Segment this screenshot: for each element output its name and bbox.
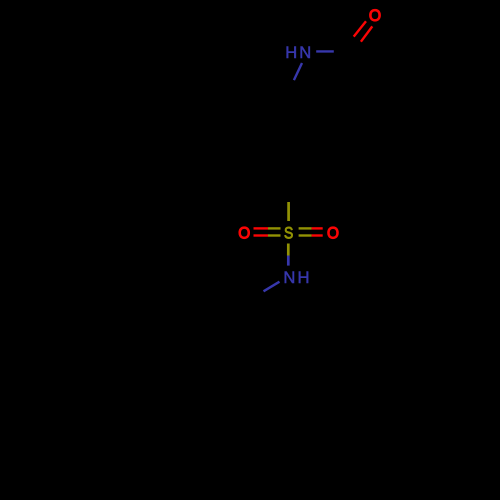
svg-text:H: H bbox=[285, 43, 297, 62]
svg-text:N: N bbox=[299, 43, 311, 62]
svg-text:S: S bbox=[284, 225, 293, 243]
svg-text:H: H bbox=[298, 268, 310, 287]
svg-text:O: O bbox=[369, 7, 381, 25]
svg-text:O: O bbox=[238, 224, 250, 243]
svg-text:N: N bbox=[283, 268, 295, 287]
svg-text:O: O bbox=[327, 224, 339, 243]
